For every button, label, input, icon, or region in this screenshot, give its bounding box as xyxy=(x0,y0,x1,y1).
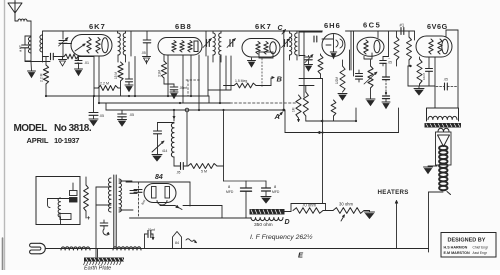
wire 6V6 plate xyxy=(446,30,458,108)
wire rail1 xyxy=(47,95,209,97)
ground filter second xyxy=(261,197,271,204)
ground volume half xyxy=(338,94,347,101)
svg-text:APRIL: APRIL xyxy=(27,136,49,145)
wire A drop xyxy=(285,110,300,133)
svg-text:414: 414 xyxy=(162,149,168,153)
wire rail bracket xyxy=(208,96,210,103)
capacitor det bypass xyxy=(305,55,313,65)
line choke coil A xyxy=(61,247,90,250)
svg-text:.05: .05 xyxy=(99,114,104,118)
wire AVC rail xyxy=(43,56,49,58)
tube V4 6H6 detector xyxy=(314,34,345,57)
transformer T5 output xyxy=(427,108,459,121)
ground IF1 bypass xyxy=(125,85,133,92)
ground AVC xyxy=(59,57,67,67)
resistor AVC series xyxy=(64,54,78,59)
transformer T3 IF2 xyxy=(206,31,221,62)
wire stage box bracket xyxy=(208,89,231,91)
pilot squiggle xyxy=(186,239,197,243)
wire filter rail dashed xyxy=(224,180,267,182)
tube V5 6C5 audio xyxy=(357,37,384,59)
capacitor line filter xyxy=(100,220,109,235)
wire antenna lead xyxy=(30,21,32,62)
speaker xyxy=(436,132,452,165)
svg-text:2.2 M: 2.2 M xyxy=(100,82,109,86)
ground 6V6 cathode xyxy=(414,86,424,95)
wire top bus xyxy=(43,30,323,32)
node E xyxy=(298,251,304,260)
wire det right vertical xyxy=(303,31,305,97)
capacitor osc padder xyxy=(152,123,168,155)
wire hum link xyxy=(323,210,333,212)
earth plate xyxy=(84,258,125,266)
svg-text:1.5 Meg: 1.5 Meg xyxy=(235,79,247,83)
resistor 2.2M coupling xyxy=(94,82,121,91)
transformer T4 det xyxy=(290,31,298,60)
svg-text:6K7: 6K7 xyxy=(89,22,106,31)
wire T6 leads xyxy=(96,181,133,257)
tube V7 84 rectifier xyxy=(144,184,176,206)
page edge line xyxy=(4,0,6,270)
label 6B8 xyxy=(175,22,192,31)
wire osc box link xyxy=(48,197,70,200)
wire 6V6 grid xyxy=(414,31,416,40)
svg-text:I. F Frequency 262½: I. F Frequency 262½ xyxy=(250,233,313,241)
svg-text:6V6G: 6V6G xyxy=(427,22,448,31)
resistor 6C5 plate load xyxy=(394,31,399,66)
svg-text:350 ohm: 350 ohm xyxy=(254,222,273,228)
heater feed arrow xyxy=(395,200,398,249)
capacitor audio coupling xyxy=(350,70,363,82)
capacitor osc feed xyxy=(174,163,183,175)
resistor cathode 6B8 xyxy=(158,55,175,84)
svg-text:A: A xyxy=(274,112,280,121)
notch box xyxy=(60,214,71,220)
svg-text:1/2M: 1/2M xyxy=(335,77,339,84)
svg-text:10mf: 10mf xyxy=(422,73,426,80)
svg-text:.05: .05 xyxy=(141,51,146,55)
svg-text:MFD: MFD xyxy=(272,190,280,194)
rectifier box xyxy=(126,182,190,216)
capacitor 6V6 cathode xyxy=(422,57,433,86)
svg-text:MODEL: MODEL xyxy=(14,123,48,134)
transformer T1 antenna coil xyxy=(28,32,42,63)
wire top bus right xyxy=(346,30,415,32)
label 6C5 xyxy=(363,21,381,30)
svg-text:.01mf: .01mf xyxy=(147,228,155,232)
wire det stage box xyxy=(299,32,322,56)
svg-text:6B8: 6B8 xyxy=(175,22,192,31)
capacitor line bypass2 xyxy=(118,110,134,120)
ground cathode 6B8 xyxy=(170,92,178,99)
tube V6 6V6G output xyxy=(416,36,452,57)
svg-text:+: + xyxy=(87,215,91,222)
label IF frequency xyxy=(250,233,313,241)
node junction osc xyxy=(185,108,189,112)
capacitor cathode V1 xyxy=(77,56,79,63)
svg-text:Earth Plate: Earth Plate xyxy=(84,266,111,271)
svg-text:.05: .05 xyxy=(176,171,181,175)
svg-text:.05: .05 xyxy=(444,78,449,82)
node A xyxy=(274,109,286,121)
line choke coil B xyxy=(113,247,141,250)
wire 6C5 stage box xyxy=(351,31,378,70)
wire 6V6 cathode rail xyxy=(408,65,435,86)
capacitor C1 tuning xyxy=(59,31,69,57)
svg-text:10·1937: 10·1937 xyxy=(54,136,79,145)
wire oscillator bus xyxy=(106,109,284,111)
capacitor tone .05 xyxy=(436,78,457,91)
ground speaker frame xyxy=(424,166,438,174)
osc box coil xyxy=(58,198,60,224)
resistor volume pot xyxy=(364,60,377,88)
node D xyxy=(285,219,290,226)
wire T3 drops xyxy=(208,56,231,103)
tube V1 6K7 RF amp xyxy=(63,35,112,57)
svg-text:.05: .05 xyxy=(129,113,134,117)
svg-text:15 M: 15 M xyxy=(114,72,118,79)
tube V2 6B8 xyxy=(158,38,202,56)
dial lamp xyxy=(173,232,182,249)
wire long vertical B xyxy=(283,31,285,110)
wire osc coil drop xyxy=(173,157,175,166)
svg-text:84: 84 xyxy=(175,241,179,245)
wire rail2 xyxy=(100,102,231,104)
capacitor tone 6C5 xyxy=(380,56,392,66)
svg-text:30 ohm: 30 ohm xyxy=(339,202,353,207)
label 6V6G xyxy=(427,22,448,31)
node C xyxy=(278,25,286,34)
wire osc feed xyxy=(217,110,224,181)
power plug xyxy=(30,243,47,254)
capacitor filter 8MFD second xyxy=(262,181,280,196)
choke field coil winding xyxy=(251,218,283,221)
tube V3 6K7 IF xyxy=(242,39,280,58)
wire rail segment2 xyxy=(78,56,94,58)
wire rail3 to resistor xyxy=(224,85,235,87)
wire heater AC bus xyxy=(46,248,429,250)
wire grid V1 xyxy=(63,43,72,45)
svg-text:H.S HARMON: H.S HARMON xyxy=(444,245,468,249)
resistor det filter xyxy=(318,54,323,79)
label 84 xyxy=(155,174,163,181)
transformer T6 power xyxy=(109,175,122,247)
wire det plate feed xyxy=(306,108,357,122)
label 6K7 first xyxy=(89,22,106,31)
ground grid bypass xyxy=(75,69,83,76)
wire rect output xyxy=(160,205,222,209)
wire choke to resistor xyxy=(285,204,326,212)
oscillator box xyxy=(36,177,80,225)
ground osc padder xyxy=(152,155,162,162)
wire 6C5 plate xyxy=(383,31,389,57)
label heaters xyxy=(378,189,409,196)
ground det bypass xyxy=(305,65,313,72)
label model number xyxy=(14,123,92,145)
resistor 6V6 cathode xyxy=(417,57,422,86)
svg-text:.01: .01 xyxy=(84,61,89,65)
switch hook xyxy=(48,199,51,208)
resistor volume half xyxy=(335,60,345,92)
label earth plate xyxy=(84,266,111,272)
svg-text:No 3818.: No 3818. xyxy=(54,123,92,134)
capacitor rect filter xyxy=(134,190,146,206)
resistor osc xyxy=(84,177,89,218)
svg-text:70 ohm: 70 ohm xyxy=(302,203,316,208)
antenna xyxy=(8,1,31,22)
label 6K7 second xyxy=(255,22,272,31)
capacitor antenna series xyxy=(19,36,32,61)
svg-text:Chief Engr: Chief Engr xyxy=(473,245,489,249)
wire dotted cathode xyxy=(261,59,263,89)
ground 6H6 cathode xyxy=(330,50,337,59)
capacitor grid 6B8 xyxy=(141,31,151,56)
speaker voice coil top xyxy=(438,128,449,131)
capacitor osc bus bypass xyxy=(89,113,104,120)
svg-text:84: 84 xyxy=(155,174,163,181)
wire 6B8 leads xyxy=(168,55,199,110)
resistor osc feed xyxy=(183,164,217,174)
capacitor trimmer T3 right xyxy=(227,31,236,48)
capacitor coupling .1 xyxy=(400,23,405,35)
wire 6H6 drops xyxy=(350,31,354,76)
transformer T2 IF1 xyxy=(118,31,132,62)
capacitor tone stack lower xyxy=(383,80,390,102)
capacitor grid bypass .01 xyxy=(75,57,89,70)
speaker field coil helix xyxy=(439,146,450,195)
ground hum xyxy=(364,211,375,219)
svg-text:6K7: 6K7 xyxy=(255,22,272,31)
svg-text:5 M: 5 M xyxy=(201,170,207,174)
resistor det load xyxy=(292,95,302,122)
svg-text:3.9M: 3.9M xyxy=(158,70,162,77)
capacitor T6 right xyxy=(130,188,137,196)
svg-text:HEATERS: HEATERS xyxy=(378,189,409,196)
wire rail segment xyxy=(58,56,64,58)
capacitor trimmer T3 left xyxy=(203,39,212,48)
wire osc bus left drop xyxy=(94,96,107,112)
designed box xyxy=(441,233,496,258)
ground cathode V3 xyxy=(248,58,256,67)
wire rail2 dashed xyxy=(230,102,296,104)
ground line bypass2 xyxy=(118,120,127,127)
capacitor AVC series xyxy=(51,53,59,60)
label plus xyxy=(87,215,91,222)
wire det out rails xyxy=(299,79,323,204)
svg-text:E.M MARSTON: E.M MARSTON xyxy=(444,251,470,255)
wire dashed AVC branch xyxy=(186,80,200,96)
wire IF1 drop xyxy=(134,57,136,97)
capacitor cathode 6B8 xyxy=(170,84,187,92)
capacitor trimmer T4 xyxy=(282,39,291,48)
choke field coil core xyxy=(250,209,285,215)
oscillator coil xyxy=(158,110,176,157)
resistor 6V6 grid leak xyxy=(407,31,412,66)
capacitor heater bypass xyxy=(145,228,156,249)
wire misc vertical xyxy=(398,95,400,108)
svg-text:6H6: 6H6 xyxy=(324,21,341,30)
svg-text:Asst Engr: Asst Engr xyxy=(473,251,488,255)
ground grid 6B8 xyxy=(143,57,151,65)
resistor det plate xyxy=(303,86,308,122)
junction dots xyxy=(45,30,357,134)
svg-text:A NT: A NT xyxy=(19,45,23,52)
ground osc bus bypass xyxy=(89,119,98,126)
capacitor IF1 bypass xyxy=(126,62,133,85)
resistor 1.5M AVC feed xyxy=(234,78,271,88)
svg-text:D: D xyxy=(285,219,290,226)
wire first-stage bottom rail xyxy=(25,61,50,63)
capacitor tone stack upper xyxy=(383,64,390,80)
svg-text:2.2 M: 2.2 M xyxy=(40,73,44,82)
wire HV bottom xyxy=(130,217,252,219)
svg-text:MFD: MFD xyxy=(226,190,234,194)
svg-text:B: B xyxy=(277,75,283,84)
resistor cathode V3 box xyxy=(259,52,273,58)
wire osc drop xyxy=(186,112,188,166)
padder stack xyxy=(70,183,78,202)
ground antenna xyxy=(28,62,36,78)
label 6H6 xyxy=(324,21,341,30)
resistor hum 30 ohm xyxy=(333,202,364,214)
wire V1 leads xyxy=(94,56,99,103)
wire B plus bus xyxy=(300,108,399,134)
wire speaker return xyxy=(429,192,444,252)
resistor det extra xyxy=(331,100,336,121)
core T5 laminations xyxy=(425,123,462,128)
wire OT primary feed xyxy=(434,57,436,108)
svg-text:.05: .05 xyxy=(388,61,393,65)
hum tap arrow xyxy=(341,215,345,222)
wire drops mid xyxy=(154,31,156,42)
svg-text:DESIGNED BY: DESIGNED BY xyxy=(448,238,486,244)
resistor 70 ohm xyxy=(293,203,323,214)
resistor IF1 secondary xyxy=(114,62,123,96)
capacitor filter 8MFD first xyxy=(226,181,252,218)
svg-text:6C5: 6C5 xyxy=(363,21,381,30)
resistor 2.2M AVC xyxy=(40,57,49,97)
ground tone stack xyxy=(382,102,390,109)
node B xyxy=(272,75,283,84)
earth drop xyxy=(97,249,99,258)
svg-text:#1: #1 xyxy=(400,23,405,28)
svg-text:1M: 1M xyxy=(292,107,296,112)
ground volume pot xyxy=(366,88,375,106)
wire B+ line xyxy=(183,206,222,219)
label 350 ohm xyxy=(254,222,273,228)
